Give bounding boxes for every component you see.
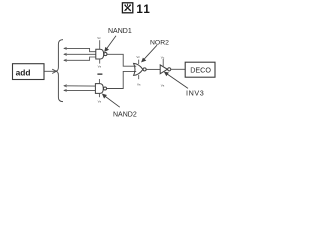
wire NOR2 output to INV3 bbox=[146, 68, 160, 70]
svg-text:Vs: Vs bbox=[98, 65, 102, 69]
wire input line 5 to NAND2 bbox=[64, 89, 95, 91]
svg-text:NAND1: NAND1 bbox=[108, 28, 132, 35]
inverter INV3 bbox=[160, 65, 171, 74]
label NAND1 arrow bbox=[105, 36, 116, 51]
NOR2 top power stub bbox=[138, 60, 140, 64]
svg-text:Vs: Vs bbox=[137, 82, 141, 86]
NAND1 bottom power stub bbox=[99, 59, 101, 64]
svg-text:INV3: INV3 bbox=[186, 88, 204, 97]
ground bar bbox=[97, 73, 102, 75]
wire add box to brace (arrow) bbox=[44, 69, 56, 73]
INV3 top power stub bbox=[162, 59, 164, 67]
svg-text:Vc: Vc bbox=[136, 55, 140, 59]
label NOR2 arrow bbox=[142, 45, 157, 62]
figure title kanji ZU (drawn box glyph) bbox=[122, 3, 132, 13]
NAND2 top power stub bbox=[98, 79, 100, 84]
decoder box DECO bbox=[185, 62, 215, 77]
svg-text:Vc: Vc bbox=[161, 55, 165, 59]
wire input line 2 to NAND1 bbox=[64, 53, 96, 55]
wire input line 3 to NAND1 bbox=[64, 57, 96, 62]
svg-text:Vc: Vc bbox=[97, 36, 101, 40]
NOR2 bottom power stub bbox=[138, 75, 140, 79]
svg-text:DECO: DECO bbox=[190, 65, 211, 74]
wire INV3 output to DECO bbox=[171, 68, 185, 70]
svg-text:11: 11 bbox=[136, 4, 151, 16]
svg-text:NOR2: NOR2 bbox=[150, 40, 169, 47]
NAND gate NAND1 bbox=[96, 49, 107, 59]
label NAND2 arrow bbox=[103, 94, 120, 107]
wire input line 4 to NAND2 bbox=[64, 85, 95, 87]
wire input line 1 to NAND1 bbox=[64, 47, 96, 52]
wire NAND1 output to NOR2 input A bbox=[107, 54, 136, 66]
svg-text:Vs: Vs bbox=[98, 100, 102, 104]
svg-text:Vs: Vs bbox=[161, 83, 165, 87]
NAND1 top power stub bbox=[99, 40, 101, 49]
svg-text:NAND2: NAND2 bbox=[113, 112, 137, 119]
wire NAND2 output to NOR2 input B bbox=[107, 71, 137, 88]
NOR gate NOR2 bbox=[134, 63, 147, 75]
label INV3 arrow bbox=[165, 72, 188, 88]
NAND gate NAND2 bbox=[95, 84, 106, 94]
svg-text:add: add bbox=[16, 67, 31, 77]
adder box "add" bbox=[13, 64, 45, 80]
brace (bus split) bbox=[55, 40, 63, 102]
NAND2 bottom power stub bbox=[98, 93, 100, 97]
